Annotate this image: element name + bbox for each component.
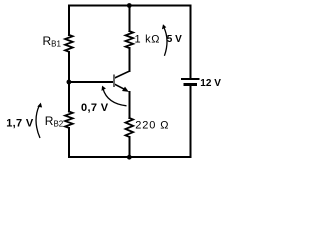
battery V1 short plate <box>184 83 197 86</box>
wire right rail lower (battery to bottom) <box>189 86 191 158</box>
svg-text:0,7 V: 0,7 V <box>81 102 109 114</box>
arrow voltage 5V across R1 <box>162 24 167 56</box>
arrow voltage 0.7V base-emitter <box>102 86 127 106</box>
resistor RB1 <box>65 35 73 52</box>
svg-text:220 Ω: 220 Ω <box>135 119 169 131</box>
svg-text:1,7 V: 1,7 V <box>6 117 34 129</box>
wire top rail <box>69 5 190 7</box>
svg-text:12 V: 12 V <box>200 78 221 89</box>
transistor Q1 emitter arrowhead <box>122 87 129 92</box>
wire bottom rail <box>69 156 190 158</box>
wire emitter vertical (transistor to R2) <box>128 92 130 118</box>
junction dot top node <box>127 3 132 8</box>
svg-text:5 V: 5 V <box>167 34 182 45</box>
battery V1 long plate <box>181 78 199 80</box>
svg-text:1 kΩ: 1 kΩ <box>135 34 161 46</box>
junction dot bottom node <box>127 155 132 160</box>
resistor RB2 <box>65 112 73 128</box>
wire middle branch top (top rail to R1) <box>128 6 130 32</box>
resistor R2 220 Ohm <box>126 118 134 137</box>
wire base (left rail to transistor) <box>69 81 113 83</box>
wire middle branch bottom (R2 to bottom rail) <box>128 137 130 157</box>
arrow voltage 1.7V across RB2 <box>36 103 42 138</box>
wire left rail upper (top to RB1) <box>68 6 70 35</box>
wire collector vertical (R1 to transistor) <box>128 48 130 71</box>
resistor R1 1 kOhm <box>126 31 134 48</box>
transistor Q1 collector lead <box>115 71 130 78</box>
wire left rail middle (RB1 to RB2 through base node) <box>68 52 70 112</box>
transistor Q1 emitter lead <box>115 84 126 90</box>
junction dot base node <box>67 80 72 85</box>
wire left rail lower (RB2 to bottom) <box>68 128 70 157</box>
transistor Q1 base bar <box>113 74 115 87</box>
wire right rail upper (top to battery) <box>189 6 191 80</box>
